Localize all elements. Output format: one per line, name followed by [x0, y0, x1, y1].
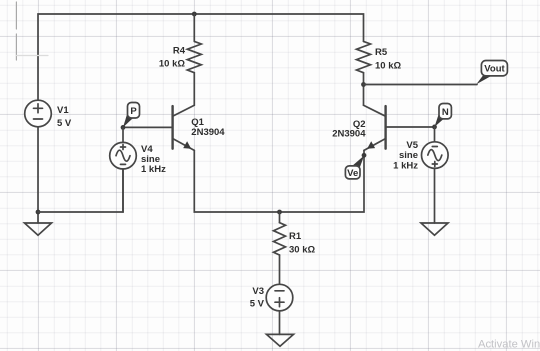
node V1 ground junction — [36, 210, 41, 215]
label Q1 — [191, 117, 225, 138]
label R4 value — [159, 46, 186, 70]
node top-rail junction — [192, 12, 197, 17]
flag N — [435, 104, 452, 127]
svg-text:N: N — [442, 107, 449, 118]
wire emitters bottom rail — [194, 150, 364, 212]
svg-text:Ve: Ve — [347, 168, 358, 179]
flag Vout — [476, 61, 507, 85]
flag Ve — [345, 156, 364, 180]
ground GND3 — [421, 223, 448, 235]
wire R1 to V3 — [279, 255, 281, 284]
svg-text:30 kΩ: 30 kΩ — [289, 245, 315, 256]
svg-text:5 V: 5 V — [250, 299, 265, 310]
node Ve junction — [362, 153, 367, 158]
wire Q2 base — [386, 126, 435, 128]
svg-text:1 kHz: 1 kHz — [393, 161, 418, 172]
wire Q1 base — [123, 126, 173, 128]
resistor R5 — [357, 41, 371, 72]
svg-text:R4: R4 — [173, 46, 186, 57]
ground GND2 — [267, 334, 294, 346]
wire R4 to Q1 collector — [193, 73, 195, 106]
svg-text:5 V: 5 V — [57, 118, 72, 129]
svg-text:Vout: Vout — [484, 64, 505, 75]
svg-text:Activate Wind: Activate Wind — [478, 339, 540, 351]
svg-text:P: P — [130, 106, 137, 117]
wire R5 to Q2 collector — [363, 73, 365, 106]
voltage source V3 5V — [266, 284, 293, 311]
node N junction — [432, 125, 437, 130]
wire R1 top — [279, 212, 281, 223]
resistor R4 — [187, 41, 201, 72]
svg-text:1 kHz: 1 kHz — [141, 164, 166, 175]
svg-text:R5: R5 — [375, 47, 388, 58]
label Q2 — [332, 119, 366, 140]
svg-text:sine: sine — [399, 150, 418, 161]
wire V1 to ground — [37, 127, 39, 223]
label R5 value — [375, 47, 401, 72]
voltage source V1 5V — [25, 100, 52, 127]
node P junction — [121, 125, 126, 130]
voltage source V4 sine — [110, 127, 137, 212]
node R1 junction — [277, 210, 282, 215]
label V1 — [57, 105, 72, 129]
voltage source V5 sine — [422, 127, 449, 223]
label V5 — [393, 140, 419, 172]
wire top rail — [38, 14, 364, 100]
label R1 value — [289, 231, 315, 256]
wire ground rail to V4 — [38, 169, 123, 212]
ground GND1 — [25, 223, 52, 235]
wire V3 to ground — [279, 311, 281, 335]
svg-text:V3: V3 — [252, 286, 264, 297]
flag P — [123, 103, 140, 128]
transistor Q1 2N3904 — [173, 105, 195, 150]
svg-text:2N3904: 2N3904 — [191, 127, 225, 138]
wire Vout tap — [364, 84, 478, 86]
screen-edge artifact lines — [16, 2, 48, 60]
svg-text:2N3904: 2N3904 — [332, 129, 366, 140]
svg-text:10 kΩ: 10 kΩ — [375, 61, 401, 72]
resistor R1 — [274, 223, 286, 255]
wire R4 top — [193, 14, 195, 41]
label V3 — [250, 286, 265, 310]
svg-text:10 kΩ: 10 kΩ — [159, 59, 185, 70]
label V4 — [141, 144, 166, 175]
svg-text:R1: R1 — [289, 231, 302, 242]
transistor Q2 2N3904 — [364, 105, 386, 150]
node Vout junction — [361, 82, 366, 87]
svg-text:V1: V1 — [57, 105, 69, 116]
